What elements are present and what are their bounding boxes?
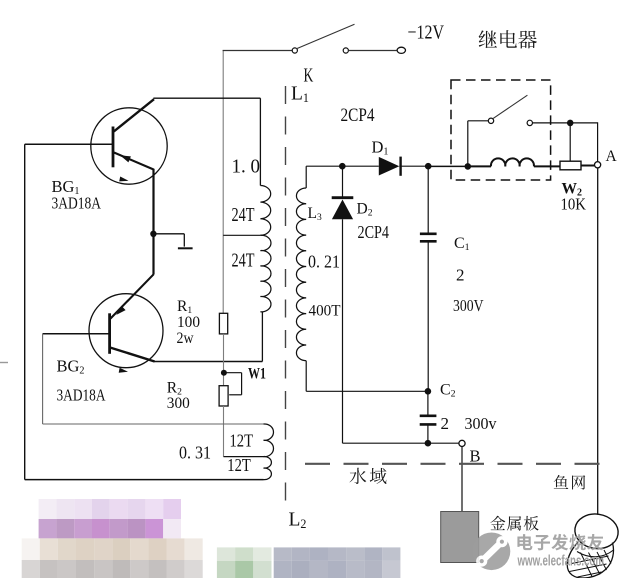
wire bus into relay box <box>428 165 468 167</box>
potentiometer W2 10K <box>560 161 581 170</box>
transistor Q1 BG1 <box>91 108 167 184</box>
watermark logo (elecfans) <box>473 533 511 571</box>
svg-text:K: K <box>304 66 314 87</box>
svg-text:300V: 300V <box>453 296 484 315</box>
wire HV bus from secondary top to relay <box>306 165 379 167</box>
svg-text:12T: 12T <box>230 431 254 451</box>
ground <box>153 233 184 235</box>
svg-text:L2: L2 <box>289 510 307 531</box>
watermark text 电子发烧友 <box>517 534 532 550</box>
svg-text:2: 2 <box>456 266 465 285</box>
wire feedback center tap <box>224 456 264 458</box>
stray mark left edge <box>0 362 8 364</box>
svg-text:100: 100 <box>177 314 200 331</box>
relay coil <box>465 163 472 170</box>
diode D1 2CP4 <box>379 157 400 176</box>
diode D2 2CP4 (vertical) <box>342 166 344 197</box>
transformer feedback winding 12T+12T <box>264 424 274 457</box>
node B <box>459 440 465 446</box>
node C1 branch junction <box>425 163 432 170</box>
wire secondary bottom to C2 <box>306 390 428 392</box>
svg-text:12T: 12T <box>227 455 251 475</box>
water surface dashed line <box>305 463 608 465</box>
label relay 继电器 <box>479 30 497 48</box>
node D2 branch junction <box>339 163 346 170</box>
wire switch feed horizontal <box>223 50 293 52</box>
fish net hoop <box>573 511 621 551</box>
wire primary center tap <box>223 234 260 236</box>
svg-text:3AD18A: 3AD18A <box>52 194 102 213</box>
relay box (dashed) <box>451 80 551 180</box>
relay contact (right) <box>527 120 532 125</box>
svg-text:−12V: −12V <box>408 21 445 43</box>
svg-text:300v: 300v <box>465 414 498 433</box>
label 金属板 <box>490 516 505 530</box>
pixelated censored blocks bottom-middle <box>217 547 235 561</box>
svg-text:2w: 2w <box>177 330 195 347</box>
svg-text:D1: D1 <box>372 138 389 158</box>
node C2 bottom junction <box>425 440 432 447</box>
transformer core dashed line L1-L2 <box>285 86 287 503</box>
resistor R2 <box>219 386 228 406</box>
svg-text:B: B <box>470 447 481 466</box>
fish net pouch <box>567 542 613 578</box>
svg-text:24T: 24T <box>232 250 255 272</box>
svg-text:www.elecfans.com: www.elecfans.com <box>517 554 604 570</box>
wire BG2 collector to primary bottom <box>154 361 262 363</box>
svg-text:D2: D2 <box>357 201 373 219</box>
svg-text:C1: C1 <box>454 235 470 253</box>
svg-text:W1: W1 <box>248 366 266 383</box>
wire emitter bus BG1-BG2 <box>152 169 154 275</box>
svg-text:BG2: BG2 <box>57 357 85 377</box>
svg-text:C2: C2 <box>440 382 456 400</box>
wire BG1 base down left side to feedback winding bottom <box>24 144 26 479</box>
svg-text:10K: 10K <box>561 195 587 214</box>
svg-text:2CP4: 2CP4 <box>341 105 375 126</box>
wire R2 to feedback center tap <box>223 406 225 457</box>
svg-text:300: 300 <box>167 395 190 412</box>
svg-text:400T: 400T <box>309 303 341 320</box>
svg-text:L3: L3 <box>308 205 322 223</box>
resistor R1 <box>219 313 227 334</box>
wire BG2 base down to feedback winding top <box>42 334 44 424</box>
wire BG1 base lead <box>25 143 113 145</box>
svg-text:0. 31: 0. 31 <box>179 443 211 463</box>
node W2 wiper junction <box>567 120 574 127</box>
wire feedback top to BG2 base line <box>43 423 264 425</box>
pixelated censored blocks bottom-left <box>39 499 57 519</box>
node W1 wiper junction <box>221 370 227 376</box>
wire BG1 collector to primary top <box>153 97 260 99</box>
switch K <box>292 48 297 53</box>
transistor Q2 BG2 <box>89 294 163 368</box>
wire -12V supply vertical from switch to center tap and R1 <box>222 51 224 314</box>
metal plate 金属板 (electrode) <box>441 512 479 563</box>
label 水域 (water area) <box>350 468 367 484</box>
wire node B down to metal plate <box>461 447 463 512</box>
svg-text:L1: L1 <box>291 84 309 105</box>
svg-text:A: A <box>606 148 618 165</box>
transformer secondary winding L3 400T <box>305 166 307 188</box>
node C2 top <box>425 388 432 395</box>
svg-text:2CP4: 2CP4 <box>358 222 390 242</box>
wire BG2 base lead <box>43 333 110 335</box>
label 鱼网 (fish net) <box>554 475 569 489</box>
capacitor C2 <box>427 391 429 415</box>
wire R1 to R2 <box>223 334 225 386</box>
node A <box>595 162 601 168</box>
capacitor C1 <box>427 166 429 233</box>
node emitter junction <box>150 231 156 237</box>
svg-text:3AD18A: 3AD18A <box>57 386 107 405</box>
wire feedback bottom to BG1 base line <box>25 479 264 481</box>
potentiometer W1 wiper bracket <box>224 372 242 374</box>
svg-text:2: 2 <box>441 414 450 433</box>
svg-text:24T: 24T <box>232 204 255 226</box>
wire node A down to fish net <box>597 168 599 515</box>
svg-text:0. 21: 0. 21 <box>308 252 340 272</box>
transformer primary winding 24T+24T <box>260 186 270 236</box>
wire D2 anode to node B <box>343 442 428 444</box>
relay contact (left) <box>488 118 493 123</box>
svg-text:1. 0: 1. 0 <box>232 156 261 178</box>
